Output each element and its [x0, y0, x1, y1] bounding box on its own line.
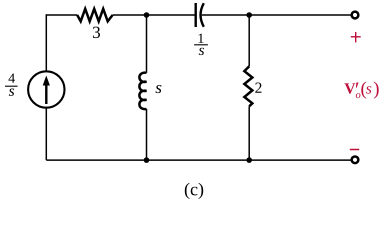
- inductor L1 (s) coil: [139, 73, 146, 109]
- capacitor C1 plate (left, straight): [194, 3, 196, 27]
- value label 4 (numerator): [8, 73, 15, 82]
- resistor R2 (2, vertical): [244, 66, 252, 106]
- current source I1 circle: [28, 71, 64, 107]
- current source I1 arrow: [43, 76, 50, 105]
- terminal (- output): [352, 156, 359, 163]
- caption (c): [185, 183, 203, 199]
- node D (bottom junction, R2): [246, 157, 252, 163]
- wire R2 branch lower: [248, 106, 250, 160]
- fraction bar (1/s): [194, 44, 208, 45]
- value label 3: [93, 27, 100, 38]
- wire R2 branch upper: [248, 15, 250, 66]
- node B (top junction to R2): [246, 12, 252, 18]
- polarity mark -: [350, 149, 359, 151]
- output label prime: [356, 82, 359, 87]
- wire R1 to capacitor: [113, 14, 196, 16]
- wire left branch lower: [45, 108, 47, 160]
- output label ): [374, 82, 379, 99]
- output label (: [361, 82, 366, 99]
- value label s (denominator): [9, 89, 14, 96]
- value label 1 (numerator): [199, 34, 204, 43]
- output label subscript o: [356, 93, 361, 98]
- wire bottom rail: [46, 159, 350, 161]
- value label s (inductor): [156, 85, 162, 93]
- node C (bottom junction, inductor): [144, 157, 150, 163]
- wire capacitor to + terminal: [202, 14, 351, 16]
- wire top-left (corner to R1): [46, 14, 77, 16]
- wire left branch upper: [45, 14, 47, 71]
- fraction bar (4/s): [5, 86, 18, 87]
- capacitor C1 plate (right, curved): [201, 3, 204, 27]
- node A (top junction to inductor): [144, 12, 150, 18]
- terminal (+ output): [352, 12, 359, 19]
- output label s: [366, 86, 371, 93]
- value label s (denominator): [199, 48, 204, 55]
- resistor R1 (3, horizontal): [77, 9, 112, 22]
- value label 2: [255, 83, 261, 93]
- output label V: [345, 83, 356, 93]
- wire inductor branch lower: [146, 109, 148, 160]
- polarity mark +: [351, 32, 361, 42]
- wire inductor branch upper: [146, 15, 148, 73]
